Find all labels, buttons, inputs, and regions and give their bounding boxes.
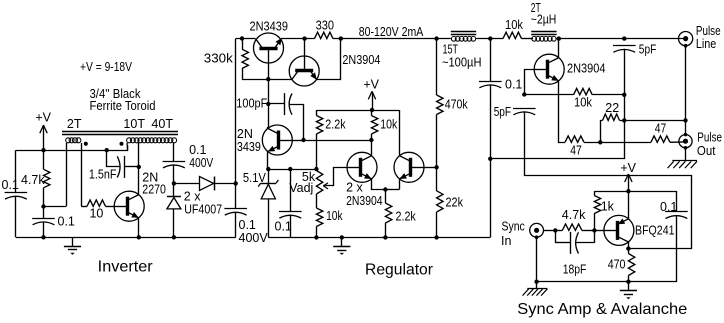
svg-text:2N: 2N (237, 127, 253, 141)
connector Pulse Line (679, 31, 693, 45)
svg-text:UF4007: UF4007 (184, 203, 222, 217)
node shunt diode ground (172, 235, 176, 239)
node 4.7k bottom junction (41, 204, 45, 208)
svg-text:400V: 400V (239, 231, 269, 245)
label 2N2270 line1 (142, 170, 158, 184)
node 470 ground junction (626, 280, 630, 284)
label 5k (302, 170, 316, 184)
resistor 330k (242, 49, 248, 68)
svg-text:2N3439: 2N3439 (250, 20, 289, 34)
svg-text:1.5nF: 1.5nF (89, 168, 117, 182)
svg-text:2T: 2T (67, 117, 82, 131)
label 40T winding (151, 117, 173, 131)
svg-text:2N3904: 2N3904 (567, 62, 606, 76)
svg-text:Regulator: Regulator (365, 261, 434, 278)
label 10k upper (380, 118, 398, 132)
connector Pulse Out (679, 135, 692, 148)
label Sync (502, 220, 525, 234)
node Q3 base rail junction (302, 36, 306, 40)
wire 1k top stub (594, 191, 596, 195)
node sync shield junction (534, 280, 538, 284)
wire 10k to ground (316, 227, 318, 238)
wire 470k top (436, 39, 438, 95)
svg-text:2270: 2270 (142, 183, 166, 197)
wire 2.2k column (316, 110, 318, 116)
wire Q8 emitter down (628, 242, 630, 249)
wire left rail lower (15, 196, 17, 238)
svg-text:0.1: 0.1 (275, 220, 292, 234)
svg-text:2N3904: 2N3904 (342, 53, 380, 67)
node divider junction (434, 165, 438, 169)
svg-text:5pF: 5pF (494, 105, 512, 119)
svg-text:47: 47 (655, 122, 667, 136)
transformer primary winding 2T (66, 138, 81, 143)
label 5.1V (243, 171, 267, 185)
resistor 10 (81, 200, 114, 207)
resistor 47 second (651, 136, 670, 142)
svg-text:10: 10 (89, 207, 103, 221)
transistor Q1 2N2270 (114, 191, 144, 221)
inductor 2T core (531, 32, 556, 35)
wire ground net down (490, 120, 624, 158)
resistor 4.7k (44, 169, 50, 188)
wire pot wiper (323, 168, 347, 189)
node 330k top (240, 36, 244, 40)
wire sync +V line (594, 192, 676, 212)
wire 18pF lead left (555, 242, 571, 244)
label 2uH (531, 12, 557, 26)
node 22 right shell junction (683, 118, 687, 122)
label 2T small (531, 1, 541, 15)
wire Q4 collector up (268, 127, 269, 128)
wire divider to 22k (436, 167, 438, 191)
label 0.1 regulator (275, 220, 292, 234)
wire Q8 collector to +V (628, 191, 630, 219)
resistor 22k (437, 191, 443, 212)
wire base line to Q3 collector (268, 79, 292, 81)
svg-text:0.1: 0.1 (505, 78, 522, 92)
svg-text:470: 470 (608, 258, 626, 272)
wire base column (268, 79, 270, 127)
node +V junction (370, 108, 374, 112)
svg-text:47: 47 (570, 143, 582, 157)
capacitor 0.1 400V second (224, 209, 247, 216)
label 1k (601, 200, 615, 214)
wire 330k bottom (243, 69, 269, 80)
capacitor 1.5nF (117, 156, 124, 178)
wire Q4 emitter down (267, 152, 269, 170)
transistor Q7 2N3904 avalanche (534, 54, 564, 84)
wire regulator top rail left (236, 38, 256, 40)
svg-text:10k: 10k (380, 118, 398, 132)
inductor 2T (532, 36, 556, 41)
wire rail to pulse line (557, 38, 684, 40)
capacitor 0.1 regulator (279, 212, 302, 219)
wire 470k to divider (436, 115, 438, 168)
label 0.1 first HV cap (189, 143, 206, 157)
capacitor 5pF collector (613, 46, 636, 53)
wire 330k top stub (242, 39, 244, 50)
label 10 (89, 207, 103, 221)
power +V sync (620, 161, 636, 191)
chassis ground pulse out (668, 161, 698, 169)
wire 47 node to 47 second (600, 142, 651, 144)
capacitor 0.1 HV filter (479, 82, 502, 88)
wire rail Q2 to Q3base (281, 38, 314, 40)
wire 10k to Q5 collector (371, 134, 373, 140)
wire 47 second to pulse out (670, 141, 684, 143)
node 4.7k 18pF left (553, 228, 557, 232)
label 2N3439 lower line1 (237, 127, 253, 141)
label BFQ241 (635, 224, 675, 238)
label 2T winding (67, 117, 82, 131)
wire secondary right lead (173, 143, 175, 161)
svg-text:2.2k: 2.2k (325, 118, 346, 132)
svg-text:400V: 400V (189, 156, 214, 170)
resistor 470k (437, 95, 443, 115)
wire to series diode (174, 183, 200, 185)
svg-text:3439: 3439 (237, 140, 261, 154)
wire primary left to 4.7k node (44, 206, 67, 208)
label 47 second (655, 122, 667, 136)
svg-text:80-120V 2mA: 80-120V 2mA (359, 25, 424, 39)
svg-text:10k: 10k (574, 95, 593, 109)
label 2.2k second (396, 209, 417, 223)
svg-text:+V: +V (620, 161, 636, 175)
svg-text:Sync Amp & Avalanche: Sync Amp & Avalanche (517, 301, 687, 318)
resistor 5k pot (316, 171, 322, 195)
inductor 15T core (451, 32, 476, 35)
wire 0.1 sync to ground line (628, 215, 676, 282)
wire ground net column (624, 49, 626, 121)
wire 5pF to U-wire (525, 111, 692, 248)
node emitter rail junction (266, 167, 270, 171)
label Sync Amp title (517, 301, 687, 318)
capacitor 0.1 sync (665, 212, 688, 219)
wire zener to ground (268, 199, 270, 238)
node output junction (234, 181, 238, 185)
svg-text:Line: Line (696, 37, 716, 51)
node 5pF1 rail (622, 36, 626, 40)
node 22k ground junction (434, 235, 438, 239)
node 10k feedback end (622, 93, 626, 97)
svg-text:+V: +V (363, 78, 379, 92)
label 2N3904 limiter (342, 53, 380, 67)
wire diode to output node (215, 183, 236, 185)
label 22k (446, 195, 464, 209)
label 22 (605, 101, 619, 115)
node emitter ground junction (137, 235, 141, 239)
wire Q1 emitter to ground (138, 218, 140, 238)
svg-text:0.1: 0.1 (2, 178, 19, 192)
wire rail 10k to 2T (522, 38, 534, 40)
svg-text:+V: +V (35, 110, 51, 124)
svg-text:10T: 10T (123, 117, 145, 131)
wire 0.1 reg to ground (290, 215, 292, 238)
svg-text:22: 22 (605, 101, 619, 115)
label 100pF (236, 97, 267, 111)
svg-text:+V = 9-18V: +V = 9-18V (80, 60, 133, 74)
resistor 330 (315, 32, 334, 38)
wire 5k to 10k (316, 194, 318, 208)
wire 22k to ground (436, 212, 438, 237)
wire 18pF lead right (576, 242, 595, 244)
wire HV cap2 to ground corner (235, 212, 237, 238)
inductor 15T (451, 36, 475, 41)
label 2N2270 line2 (142, 183, 166, 197)
node 22 line left... ground net (622, 118, 626, 122)
label UF4007 (184, 203, 222, 217)
svg-text:Pulse: Pulse (696, 24, 721, 38)
ground sync (620, 282, 637, 300)
label 0.1 below 4.7k (58, 214, 75, 228)
label 80-120V 2mA (359, 25, 424, 39)
label Pulse line1 (696, 24, 721, 38)
svg-text:~100µH: ~100µH (442, 55, 482, 69)
wire Q6 base line (424, 167, 437, 169)
node 47 22 junction (598, 140, 602, 144)
wire cap to ground rail (43, 222, 45, 238)
label toroid line2 (90, 99, 156, 113)
wire 22 line (601, 114, 686, 142)
chassis ground sync in (523, 289, 548, 296)
wire pair emitters right (399, 179, 401, 190)
wire inverter ground rail (16, 237, 236, 239)
transistor Q4 2N3439 lower (262, 125, 292, 155)
ground inverter (64, 237, 81, 255)
capacitor 0.1 400V first (163, 162, 186, 168)
wire 4.7k to cap (43, 188, 45, 218)
svg-text:2.2k: 2.2k (396, 209, 417, 223)
label Out (697, 144, 716, 158)
node Q7 collector rail (557, 36, 561, 40)
wire pair emitter join (385, 189, 399, 191)
label 10k pot lower (326, 209, 343, 223)
node phase dot secondary (120, 142, 124, 146)
label 5pF collector (639, 43, 657, 57)
node feedback gnd junction (488, 157, 492, 161)
svg-text:Inverter: Inverter (98, 258, 154, 275)
wire secondary center tap (138, 143, 140, 167)
wire 0.1 HV drop (490, 39, 492, 82)
wire 470 to ground (628, 276, 630, 282)
wire 1k bottom (594, 214, 596, 231)
node 1.5nF drop junction (105, 148, 109, 152)
svg-text:Pulse: Pulse (697, 131, 722, 145)
svg-text:15T: 15T (443, 42, 459, 56)
node ground rail left junction (41, 235, 45, 239)
wire pulse shell line (685, 46, 687, 135)
transistor Q3 2N3904 limiter (289, 39, 319, 86)
wire 18pF bracket left (555, 230, 557, 243)
wire 100pF right lead (289, 105, 304, 141)
node pulse line shell (684, 44, 688, 48)
node Q7 base node (522, 92, 526, 96)
node tap junction (137, 165, 141, 169)
svg-text:330k: 330k (204, 51, 234, 65)
wire sync ground line (537, 281, 629, 283)
wire left rail upper (15, 150, 17, 192)
svg-text:5.1V: 5.1V (243, 171, 267, 185)
label 330k (204, 51, 234, 65)
wire primary right lead (81, 143, 83, 206)
capacitor 0.1 below 4.7k (32, 219, 55, 225)
node 5k top (314, 167, 318, 171)
wire 2.2k second to ground (385, 223, 387, 237)
wire +V rail inverter (16, 145, 128, 151)
node pair emitter junction (383, 187, 387, 191)
wire regulator ground rail (268, 237, 490, 239)
transformer core (62, 132, 178, 135)
label 2N3439 top (250, 20, 289, 34)
wire 18pF bracket right (594, 230, 596, 243)
label 4.7k (21, 173, 45, 187)
wire rail 330 to 15T (333, 38, 451, 40)
resistor 1k (594, 196, 600, 214)
label 100uH (442, 55, 482, 69)
capacitor 5pF sync coupling (513, 109, 536, 115)
label 15T (443, 42, 459, 56)
wire HV cap to diode node (173, 164, 175, 183)
wire 1.5nF to tap (125, 166, 139, 168)
wire 100pF lead (268, 103, 284, 105)
capacitor 18pF (571, 232, 579, 254)
wire Q4 base to 10k node (304, 140, 372, 142)
svg-text:In: In (501, 234, 511, 248)
wire pulse out ground stub (685, 148, 687, 161)
transformer secondary winding 10T+40T (127, 138, 177, 143)
label 47 first (570, 143, 582, 157)
power +V regulator (363, 78, 379, 110)
node pulse out shell top (684, 133, 688, 137)
wire Q4 base line (292, 140, 303, 142)
svg-text:4.7k: 4.7k (21, 173, 45, 187)
wire Q3 emitter return (317, 39, 341, 80)
wire 0.1 reg drop (290, 169, 292, 211)
svg-text:470k: 470k (445, 97, 469, 111)
wire output riser (235, 39, 237, 184)
resistor 10k charge (503, 32, 522, 38)
label Vadj (289, 181, 313, 195)
transistor Q8 BFQ241 (604, 215, 634, 245)
resistor 10k pot lower (316, 208, 322, 227)
resistor 4.7k sync (555, 224, 594, 231)
svg-text:5pF: 5pF (639, 43, 657, 57)
power +V inverter (35, 110, 51, 150)
svg-text:Out: Out (697, 144, 716, 158)
wire Q7 collector (558, 39, 560, 58)
label 0.1 HV filter (505, 78, 522, 92)
label 10k feedback (574, 95, 593, 109)
svg-text:0.1: 0.1 (58, 214, 75, 228)
wire +V to 4.7k (43, 150, 45, 169)
node sync shell (535, 235, 539, 239)
node diode junction (172, 181, 176, 185)
wire regulator +V line (316, 110, 399, 112)
resistor 47 first (565, 136, 584, 142)
wire 1.5nF branch (107, 150, 121, 166)
svg-text:100pF: 100pF (236, 97, 267, 111)
label 0.1 sync (660, 200, 677, 214)
wire 0.1 HV to ground (490, 84, 492, 237)
node 0.1 reg top (288, 167, 292, 171)
node 100pF junction (266, 102, 270, 106)
capacitor 0.1 left edge (5, 193, 28, 200)
svg-text:10k: 10k (326, 209, 343, 223)
transistor Q5 2N3904 pair-left (347, 152, 377, 182)
node phase dot primary (84, 142, 88, 146)
label 4.7k sync (562, 208, 586, 222)
label pair 2x (346, 180, 363, 194)
node Q8 base node (592, 228, 596, 232)
wire rail 15T to 10k (476, 38, 503, 40)
svg-text:22k: 22k (446, 195, 464, 209)
wire Q7 emitter drop (559, 81, 566, 143)
diode UF4007 series (200, 177, 215, 191)
wire pair emitters left (372, 179, 386, 190)
resistor 470 (628, 249, 634, 276)
svg-text:40T: 40T (151, 117, 173, 131)
node 470k rail junction (434, 36, 438, 40)
wire tap to collector (138, 167, 140, 195)
diode zener 5.1V (258, 169, 278, 199)
label supply range (80, 60, 133, 74)
wire output to HV cap2 (235, 183, 237, 208)
wire sync in shield drop (536, 237, 538, 282)
svg-text:2 x: 2 x (346, 180, 363, 194)
node Q8 emitter junction (626, 246, 630, 250)
wire Q8 base lead (594, 230, 604, 232)
transistor Q6 2N3904 pair-right (394, 152, 424, 182)
svg-text:0.1: 0.1 (660, 200, 677, 214)
svg-text:330: 330 (316, 19, 334, 33)
svg-text:~2µH: ~2µH (531, 12, 557, 26)
label 0.1 second HV cap (239, 218, 256, 232)
wire shunt diode to ground (173, 209, 175, 237)
ground regulator (333, 237, 350, 255)
node 2.2k ground junction (383, 235, 387, 239)
label 2N3439 lower line2 (237, 140, 261, 154)
svg-text:Ferrite Toroid: Ferrite Toroid (90, 99, 156, 113)
wire sync shield stub (536, 282, 538, 289)
capacitor 100pF (285, 93, 293, 115)
svg-text:18pF: 18pF (563, 263, 587, 277)
svg-text:1k: 1k (601, 200, 615, 214)
label 400V second HV cap (239, 231, 269, 245)
label In (501, 234, 511, 248)
wire regulator mid rail (268, 169, 316, 171)
wire Q6 collector (399, 110, 401, 156)
wire Q7 base drop (525, 70, 535, 95)
svg-text:Sync: Sync (502, 220, 525, 234)
label 5pF coupling (494, 105, 512, 119)
node Q4 base node (301, 138, 305, 142)
label 18pF (563, 263, 587, 277)
wire Q5 collector (371, 140, 373, 156)
node Q2 base junction (266, 77, 270, 81)
label 2N3904 avalanche (567, 62, 606, 76)
svg-text:10k: 10k (505, 18, 524, 32)
transistor Q2 2N3439 top (254, 33, 284, 79)
node Q3 emitter rail junction (339, 36, 343, 40)
label 10T winding (123, 117, 145, 131)
label 330 (316, 19, 334, 33)
label 400V first HV cap (189, 156, 214, 170)
label pair 2N3904 (346, 194, 383, 208)
resistor 2.2k first (316, 116, 322, 135)
label 1.5nF (89, 168, 117, 182)
svg-text:4.7k: 4.7k (562, 208, 586, 222)
